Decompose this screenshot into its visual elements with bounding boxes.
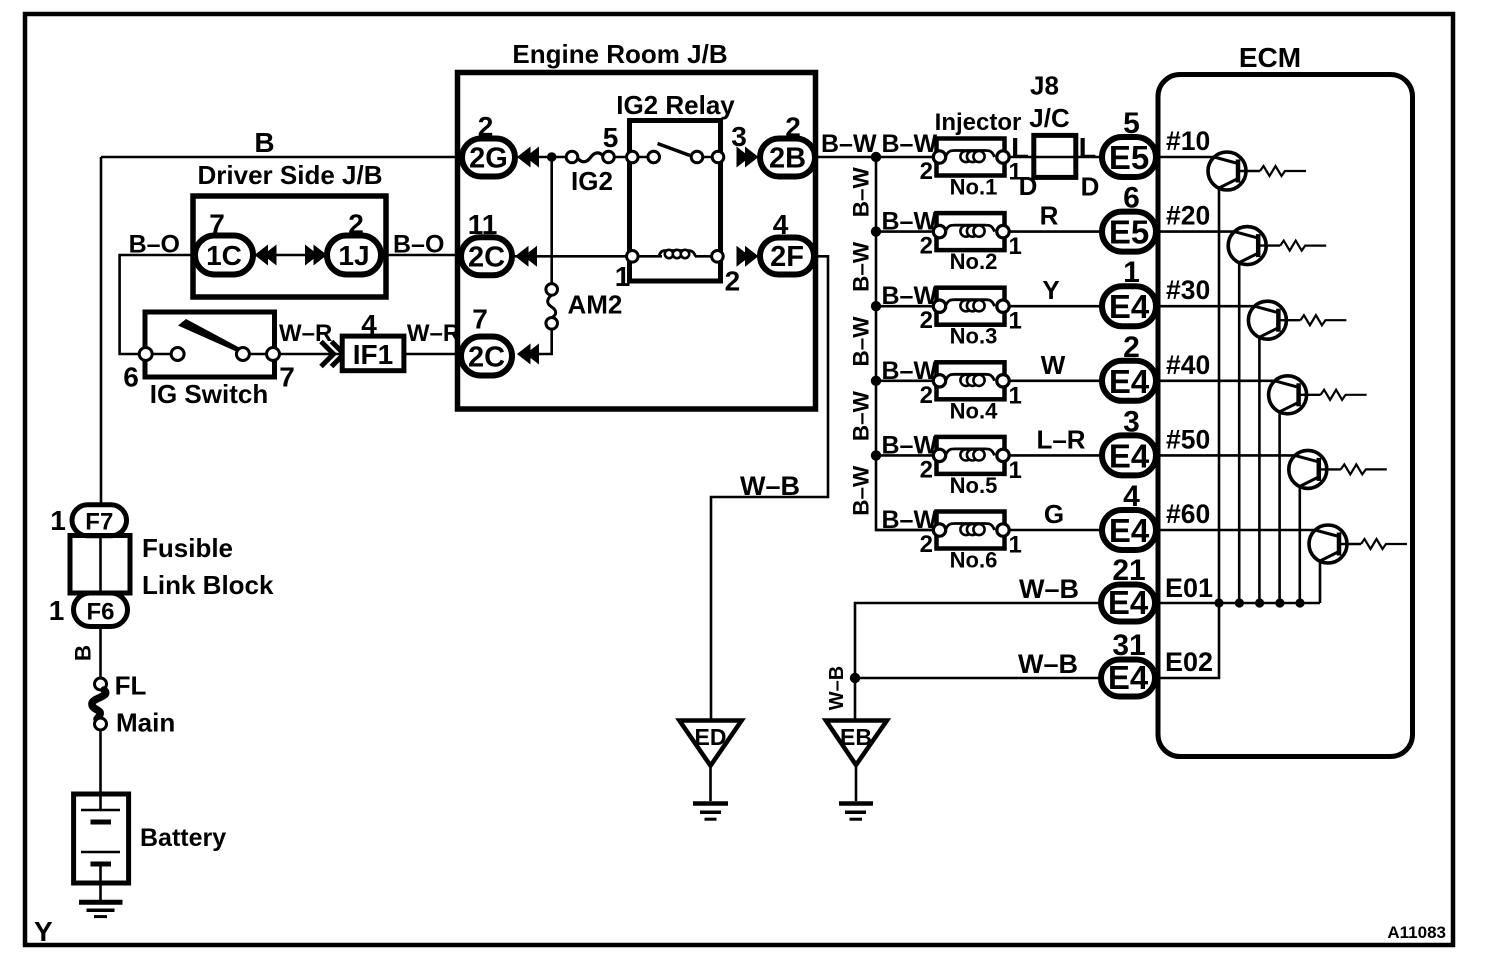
connector 2G bbox=[462, 139, 515, 177]
connector E4 (E01) bbox=[1101, 584, 1155, 622]
junction dot bbox=[871, 152, 881, 162]
wire emitter Q3 to E01 bus bbox=[1258, 337, 1261, 603]
svg-text:E4: E4 bbox=[1109, 512, 1150, 549]
wire emitter Q5 to E01 bus bbox=[1299, 486, 1302, 603]
fusible link FL Main bbox=[92, 671, 175, 738]
svg-text:B–W: B–W bbox=[849, 390, 874, 441]
svg-text:No.5: No.5 bbox=[950, 473, 998, 498]
connector E4 (E02) bbox=[1101, 659, 1155, 697]
wire emitter Q1 to E01 bus bbox=[1218, 188, 1221, 603]
svg-text:1: 1 bbox=[49, 595, 65, 626]
svg-text:W: W bbox=[1041, 350, 1066, 380]
svg-text:F7: F7 bbox=[85, 509, 113, 536]
svg-text:EB: EB bbox=[840, 724, 872, 750]
arrow into 2C bbox=[515, 246, 537, 267]
svg-text:B–W: B–W bbox=[882, 282, 938, 310]
svg-text:IG2: IG2 bbox=[571, 166, 613, 196]
bus junction dots bbox=[871, 226, 881, 460]
relay IG2 Relay bbox=[616, 90, 735, 281]
svg-text:1: 1 bbox=[50, 505, 66, 536]
resistor R3 bbox=[1300, 315, 1346, 325]
arrow into 1J bbox=[305, 245, 327, 266]
svg-text:D: D bbox=[1081, 172, 1100, 202]
svg-text:5: 5 bbox=[603, 122, 619, 153]
arrow into 2F bbox=[737, 246, 759, 267]
connector E4 (#30) bbox=[1102, 286, 1156, 326]
wire bus stub to injector No.5 bbox=[876, 454, 934, 457]
rotated wire labels B-W bbox=[849, 167, 874, 516]
wire bus stub to injector No.4 bbox=[876, 379, 934, 382]
svg-text:3: 3 bbox=[731, 121, 747, 152]
svg-text:#10: #10 bbox=[1166, 126, 1210, 156]
svg-text:E02: E02 bbox=[1165, 647, 1213, 677]
wire emitter Q4 to E01 bus bbox=[1278, 412, 1281, 603]
svg-text:IG Switch: IG Switch bbox=[150, 379, 268, 409]
transistor Q4 bbox=[1269, 376, 1321, 414]
svg-text:Y: Y bbox=[1042, 275, 1059, 305]
svg-text:1: 1 bbox=[1009, 308, 1022, 335]
wire #20 to transistor Q2 bbox=[1156, 230, 1235, 233]
svg-text:Injector: Injector bbox=[935, 109, 1022, 136]
svg-text:2: 2 bbox=[920, 233, 933, 260]
svg-text:Engine Room J/B: Engine Room J/B bbox=[512, 39, 727, 69]
svg-text:B: B bbox=[71, 645, 96, 661]
bus junction dots bbox=[1214, 598, 1304, 607]
relay coil bbox=[627, 250, 724, 262]
transistor Q1 bbox=[1208, 152, 1260, 190]
junction connector J8 J/C bbox=[1029, 71, 1076, 178]
svg-text:2B: 2B bbox=[769, 143, 806, 175]
svg-text:W–B: W–B bbox=[740, 471, 800, 501]
wire 2C to relay coil bbox=[515, 255, 632, 258]
wire W-B E01 to EB bbox=[855, 603, 1101, 719]
svg-text:W–B: W–B bbox=[1019, 574, 1079, 604]
svg-text:IF1: IF1 bbox=[353, 339, 393, 370]
connector E5 (#10) bbox=[1102, 137, 1156, 177]
connector F7 bbox=[72, 505, 127, 536]
svg-text:B–W: B–W bbox=[882, 431, 938, 459]
svg-text:J/C: J/C bbox=[1029, 103, 1070, 133]
junction dot bbox=[850, 673, 860, 683]
injector No.4 bbox=[933, 362, 1009, 423]
fusible link block bbox=[70, 533, 274, 600]
wire bus stub to injector No.6 bbox=[876, 529, 934, 532]
switch IG Switch bbox=[139, 312, 279, 409]
svg-text:AM2: AM2 bbox=[568, 290, 623, 320]
wire 1C to 1J bbox=[253, 254, 327, 257]
wire bus stub to injector No.2 bbox=[876, 230, 934, 233]
connector F6 bbox=[74, 593, 128, 627]
svg-text:E4: E4 bbox=[1109, 437, 1150, 474]
wire emitter Q6 to E01 bus bbox=[1319, 561, 1322, 603]
resistor R1 bbox=[1260, 166, 1306, 176]
connector 1J bbox=[327, 236, 381, 275]
svg-text:1J: 1J bbox=[338, 240, 369, 271]
wire #60 to transistor Q6 bbox=[1156, 529, 1316, 532]
svg-text:E5: E5 bbox=[1109, 139, 1149, 176]
wire #40 to transistor Q4 bbox=[1156, 379, 1276, 382]
svg-text:1: 1 bbox=[1009, 457, 1022, 484]
wire W-B E02 to EB bbox=[855, 677, 1101, 680]
connector E4 (#60) bbox=[1102, 510, 1156, 550]
wire injector No.1 to J8 bbox=[1009, 156, 1102, 159]
injector No.1 bbox=[933, 139, 1009, 200]
svg-text:2: 2 bbox=[920, 456, 933, 483]
junction dot bbox=[547, 152, 557, 162]
svg-text:2: 2 bbox=[725, 266, 741, 297]
svg-text:B–W: B–W bbox=[882, 357, 938, 385]
svg-text:No.2: No.2 bbox=[950, 249, 998, 274]
svg-text:#40: #40 bbox=[1166, 350, 1210, 380]
svg-text:B–W: B–W bbox=[849, 241, 874, 292]
ECM bbox=[1158, 42, 1413, 757]
wire bus stub to injector No.3 bbox=[876, 305, 934, 308]
wire B-O 1C to IG switch bbox=[120, 255, 195, 354]
wire B-O 1J to 2C bbox=[381, 254, 464, 257]
svg-text:7: 7 bbox=[279, 362, 295, 393]
svg-text:#20: #20 bbox=[1166, 201, 1210, 231]
svg-text:B–W: B–W bbox=[882, 130, 938, 158]
svg-text:B–W: B–W bbox=[849, 465, 874, 516]
wire #30 to transistor Q3 bbox=[1156, 305, 1255, 308]
wire injector No.4 to ECM bbox=[1009, 379, 1102, 382]
wire #10 to transistor Q1 bbox=[1156, 156, 1215, 159]
svg-text:W–B: W–B bbox=[826, 666, 848, 710]
fuse IG2 bbox=[566, 151, 614, 196]
injector No.6 bbox=[933, 512, 1009, 573]
wire IF1 to 2C bbox=[404, 353, 464, 356]
svg-text:No.6: No.6 bbox=[950, 548, 998, 573]
svg-text:Main: Main bbox=[116, 708, 175, 738]
ground ED bbox=[679, 721, 741, 820]
connector E4 (#40) bbox=[1102, 361, 1156, 401]
injector No.5 bbox=[933, 437, 1009, 498]
transistor Q3 bbox=[1248, 301, 1300, 339]
svg-text:2G: 2G bbox=[469, 143, 508, 175]
svg-text:Y: Y bbox=[34, 916, 53, 947]
wire junction to AM2 bbox=[550, 157, 553, 285]
svg-text:FL: FL bbox=[115, 671, 147, 701]
svg-text:B–W: B–W bbox=[849, 316, 874, 367]
svg-text:L: L bbox=[1079, 133, 1097, 165]
wire F6 to FL Main bbox=[99, 627, 102, 679]
svg-text:E4: E4 bbox=[1109, 363, 1150, 400]
arrow chevrons into IF1 bbox=[321, 342, 344, 367]
svg-text:2C: 2C bbox=[468, 242, 505, 274]
connector 2C pin 7 bbox=[461, 337, 512, 376]
svg-text:2F: 2F bbox=[770, 241, 804, 273]
svg-text:1: 1 bbox=[1009, 532, 1022, 559]
wire W-B 2F to ED ground bbox=[711, 256, 828, 719]
svg-text:1: 1 bbox=[1009, 382, 1022, 409]
svg-text:B–W: B–W bbox=[821, 130, 877, 158]
svg-text:6: 6 bbox=[123, 362, 139, 393]
svg-text:E4: E4 bbox=[1108, 584, 1149, 621]
svg-text:Driver Side J/B: Driver Side J/B bbox=[198, 160, 383, 190]
connector E4 (#50) bbox=[1102, 435, 1156, 475]
svg-text:1: 1 bbox=[615, 261, 631, 292]
svg-text:ECM: ECM bbox=[1239, 42, 1301, 73]
battery bbox=[74, 794, 227, 901]
ground EB bbox=[826, 721, 887, 820]
svg-text:L–R: L–R bbox=[1036, 424, 1085, 454]
svg-text:B–W: B–W bbox=[882, 506, 938, 534]
svg-text:1C: 1C bbox=[206, 240, 242, 271]
arrow into 2G bbox=[517, 147, 539, 168]
fuse AM2 bbox=[546, 284, 623, 330]
arrow into 2C bbox=[517, 344, 539, 365]
svg-text:Link Block: Link Block bbox=[142, 570, 274, 600]
svg-text:IG2 Relay: IG2 Relay bbox=[616, 90, 735, 120]
svg-text:No.4: No.4 bbox=[950, 398, 998, 423]
svg-text:#60: #60 bbox=[1166, 499, 1210, 529]
wire E02 to E01 bus bbox=[1156, 603, 1219, 678]
svg-text:2: 2 bbox=[920, 531, 933, 558]
svg-text:2C: 2C bbox=[468, 342, 505, 374]
svg-text:No.1: No.1 bbox=[950, 175, 998, 200]
svg-text:E01: E01 bbox=[1165, 573, 1213, 603]
junction block Driver Side J/B bbox=[193, 160, 386, 297]
svg-text:1: 1 bbox=[1009, 233, 1022, 260]
junction block Engine Room J/B bbox=[458, 39, 816, 409]
wire 2G to relay pin 5 bbox=[538, 156, 567, 159]
arrow into 2B bbox=[737, 147, 759, 168]
connector 1C bbox=[195, 236, 253, 275]
resistor R2 bbox=[1280, 241, 1326, 251]
svg-text:E4: E4 bbox=[1109, 288, 1150, 325]
svg-text:J8: J8 bbox=[1030, 71, 1059, 101]
svg-text:G: G bbox=[1044, 499, 1064, 529]
svg-text:W–R: W–R bbox=[407, 320, 460, 347]
resistor R6 bbox=[1361, 539, 1407, 549]
wire emitter Q2 to E01 bus bbox=[1238, 263, 1241, 603]
svg-text:E5: E5 bbox=[1109, 214, 1149, 251]
wire B to Engine Room J/B 2G bbox=[101, 156, 464, 159]
svg-text:7: 7 bbox=[472, 304, 488, 335]
svg-text:B–W: B–W bbox=[882, 208, 938, 236]
connector 2C pin 11 bbox=[461, 237, 512, 275]
injector No.2 bbox=[933, 213, 1009, 274]
svg-text:2: 2 bbox=[920, 382, 933, 409]
wire FL Main to battery bbox=[99, 730, 102, 810]
svg-text:Fusible: Fusible bbox=[142, 533, 233, 563]
svg-text:Battery: Battery bbox=[140, 824, 226, 852]
transistor Q5 bbox=[1289, 450, 1341, 488]
connector E5 (#20) bbox=[1102, 212, 1156, 252]
fuse IF1 bbox=[342, 336, 404, 371]
svg-text:B: B bbox=[254, 127, 274, 158]
wire B battery feed riser bbox=[100, 157, 103, 506]
arrow into 1C bbox=[255, 245, 277, 266]
svg-text:A11083: A11083 bbox=[1387, 923, 1446, 942]
wire injector No.5 to ECM bbox=[1009, 454, 1102, 457]
svg-text:2: 2 bbox=[920, 307, 933, 334]
svg-text:L: L bbox=[1011, 133, 1029, 165]
svg-text:R: R bbox=[1040, 201, 1059, 231]
wire IG switch to IF1 bbox=[280, 353, 343, 356]
wire injector No.2 to ECM bbox=[1009, 230, 1102, 233]
ground battery bbox=[79, 902, 123, 916]
svg-text:W–B: W–B bbox=[1018, 649, 1078, 679]
wire AM2 to 2C pin 7 bbox=[538, 329, 552, 354]
svg-text:2: 2 bbox=[920, 158, 933, 185]
connector 2F bbox=[760, 238, 814, 275]
wire B-W 2B to injector No.1 bbox=[816, 156, 934, 159]
wire injector No.3 to ECM bbox=[1009, 305, 1102, 308]
svg-text:E4: E4 bbox=[1108, 659, 1149, 696]
svg-text:D: D bbox=[1019, 171, 1038, 201]
transistor Q6 bbox=[1309, 525, 1361, 563]
svg-text:ED: ED bbox=[695, 724, 727, 750]
svg-text:No.3: No.3 bbox=[950, 324, 998, 349]
svg-text:#30: #30 bbox=[1166, 275, 1210, 305]
resistor R4 bbox=[1321, 390, 1367, 400]
wire #50 to transistor Q5 bbox=[1156, 454, 1296, 457]
E01 ground bus bbox=[1156, 602, 1320, 605]
wire injector No.6 to ECM bbox=[1009, 529, 1102, 532]
svg-text:B–W: B–W bbox=[849, 167, 874, 218]
svg-text:#50: #50 bbox=[1166, 424, 1210, 454]
svg-text:F6: F6 bbox=[86, 599, 114, 626]
injector No.3 bbox=[933, 288, 1009, 349]
injector feed bus B-W bbox=[876, 157, 934, 530]
transistor Q2 bbox=[1228, 227, 1280, 265]
connector 2B bbox=[760, 139, 815, 177]
resistor R5 bbox=[1341, 464, 1387, 474]
relay switch contact bbox=[627, 144, 724, 163]
